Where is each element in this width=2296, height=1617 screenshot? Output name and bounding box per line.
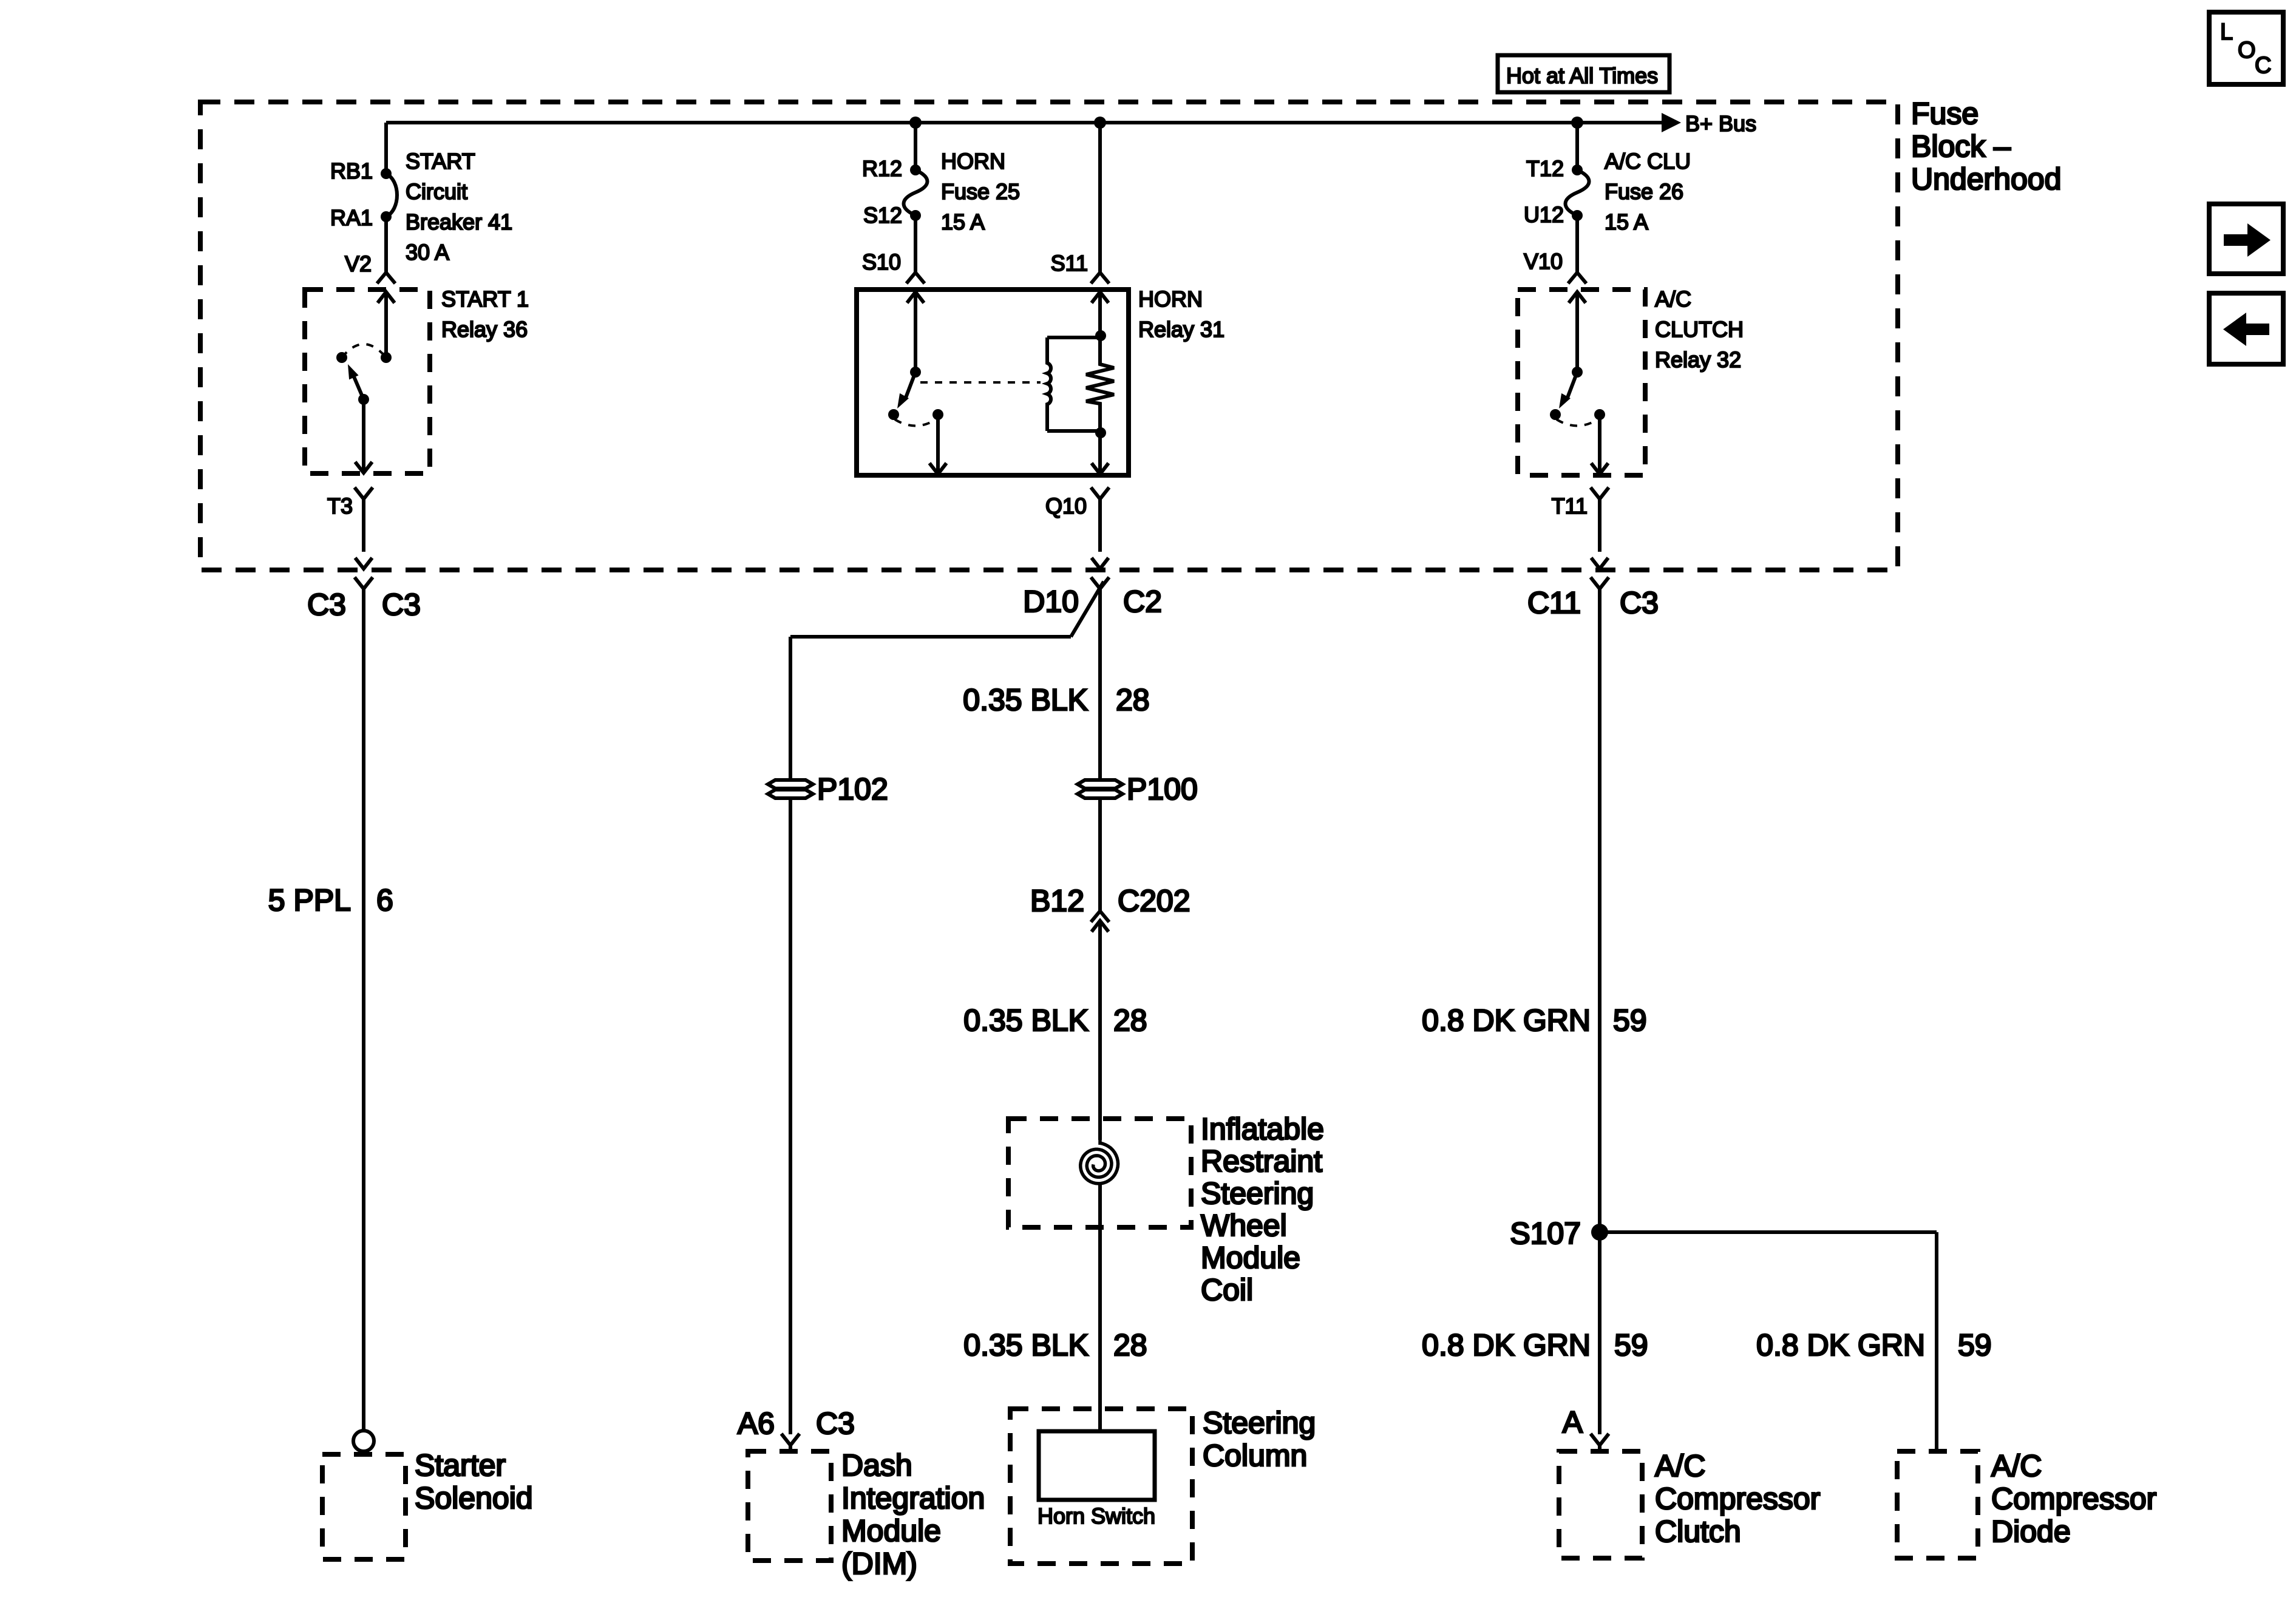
fuse block underhood dashed boundary box [200,102,1898,570]
svg-text:A/C CLU: A/C CLU [1605,149,1691,174]
right-arrow page icon box [2209,204,2283,274]
label T3 [327,493,353,518]
svg-text:Column: Column [1203,1439,1307,1473]
horn switch solid rect [1039,1431,1155,1500]
svg-text:6: 6 [376,883,393,917]
svg-text:30 A: 30 A [406,240,449,265]
svg-text:HORN: HORN [941,149,1005,174]
connector C11-C3 fork [1591,577,1609,589]
svg-text:S107: S107 [1510,1216,1581,1250]
wire C11 to S107 [1598,589,1601,1232]
label S10 [862,249,901,274]
svg-text:5 PPL: 5 PPL [268,883,351,917]
relay32 fixed contact dot left [1550,409,1561,420]
svg-text:Underhood: Underhood [1911,162,2061,196]
relay31 coil branch [1047,337,1100,431]
label V10 [1524,249,1563,274]
connector P102 inline symbol [768,780,813,798]
wire T3 to border w/ arrow [355,558,372,569]
svg-text:CLUTCH: CLUTCH [1655,317,1744,342]
svg-text:Starter: Starter [415,1448,506,1482]
svg-text:Steering: Steering [1203,1406,1316,1440]
horn relay 31 solid box [857,290,1129,475]
svg-text:Block –: Block – [1911,129,2011,163]
connector S10 fork [906,273,925,283]
terminal R12 dot [910,164,921,175]
svg-text:Compressor: Compressor [1655,1482,1820,1516]
svg-text:C202: C202 [1118,884,1190,918]
relay31 fixed contact dot left [888,409,899,420]
svg-text:P102: P102 [817,772,888,806]
steering column dashed box [1010,1409,1192,1564]
label 28 row3 [1113,1328,1147,1362]
label C2 [1123,585,1162,619]
ac clutch relay 32 dashed box [1518,290,1645,475]
connector C202 fork+arrow [1091,911,1109,1140]
relay32 switch pivot dot [1572,367,1583,378]
relay32 output wire w/ arrow [1591,415,1608,474]
connector S11 fork [1091,273,1109,283]
relay 36 input arrow [378,292,395,358]
svg-text:T3: T3 [327,493,353,518]
label 0.8 DK GRN row2 right [1756,1328,1925,1362]
connector A6 fork [781,1434,800,1451]
svg-text:Module: Module [841,1514,941,1548]
relay31 switch arm w/ arrowhead [897,372,915,408]
label C202 [1118,884,1190,918]
svg-text:S11: S11 [1051,251,1088,276]
svg-text:O: O [2238,38,2256,63]
relay31 coil bottom node dot [1095,427,1106,438]
svg-text:Module: Module [1201,1241,1300,1275]
svg-text:S10: S10 [862,249,901,274]
svg-text:28: 28 [1116,683,1150,717]
wire P100 to B12 [1098,798,1102,911]
svg-text:Circuit: Circuit [406,179,467,204]
svg-text:T11: T11 [1552,493,1588,518]
label S107 [1510,1216,1581,1250]
svg-text:C3: C3 [1620,586,1659,620]
svg-text:A/C: A/C [1991,1449,2042,1483]
wire S12 to S10 [914,215,917,273]
svg-text:0.35 BLK: 0.35 BLK [963,1003,1089,1037]
starter solenoid dashed box [322,1454,406,1559]
wire bus to R12 [914,123,917,170]
relay36 output wire w/ down arrow [355,399,372,473]
label U12 [1524,202,1564,227]
connector D10-C2 fork [1091,577,1109,589]
relay36 common contact dot [358,394,369,405]
connector Q10 fork [1091,487,1109,552]
label 28 row2 [1113,1003,1147,1037]
svg-text:RA1: RA1 [330,205,373,230]
wire bus to RB1 [384,123,388,174]
wire C2 to P100 [1098,589,1102,780]
svg-text:Relay 31: Relay 31 [1138,317,1224,342]
svg-text:Coil: Coil [1201,1273,1253,1307]
label 59 row1 [1613,1003,1647,1037]
svg-text:A/C: A/C [1655,1449,1705,1483]
svg-text:S12: S12 [863,203,902,228]
label A/C CLU Fuse 26 15 A [1605,149,1691,234]
svg-text:59: 59 [1613,1003,1647,1037]
label D10 [1023,585,1079,619]
label A6 [738,1406,775,1440]
svg-text:RB1: RB1 [330,158,373,183]
terminal T12 dot [1572,164,1583,175]
label START 1 Relay 36 [441,286,529,342]
svg-text:C3: C3 [382,588,421,622]
B+ bus arrowhead and label [1662,111,1756,136]
svg-text:Fuse 26: Fuse 26 [1605,179,1683,204]
label C3 at DIM [816,1406,855,1440]
svg-text:0.8 DK GRN: 0.8 DK GRN [1422,1003,1591,1037]
label 0.35 BLK row3 [963,1328,1089,1362]
svg-text:C11: C11 [1527,586,1581,620]
wire P102 to A6 [789,798,792,1434]
label P100 [1127,772,1198,806]
svg-text:28: 28 [1113,1328,1147,1362]
label A/C Compressor Clutch [1655,1449,1820,1548]
svg-text:C2: C2 [1123,585,1162,619]
wire C3 to starter solenoid [362,589,365,1431]
relay31 switch pivot dot [910,367,921,378]
label B12 [1030,884,1084,918]
svg-text:Horn Switch: Horn Switch [1038,1503,1155,1528]
relay31 S10 input arrow wire [907,292,924,372]
connector T3 fork [355,487,373,552]
terminal S12 dot [910,210,921,221]
label Steering Column [1203,1406,1316,1473]
svg-text:L: L [2220,19,2233,45]
svg-text:28: 28 [1113,1003,1147,1037]
svg-text:15 A: 15 A [941,209,985,234]
label RB1 [330,158,373,183]
label Dash Integration Module (DIM) [841,1448,985,1581]
svg-text:Relay 36: Relay 36 [441,317,528,342]
wire S11 from bus [1098,123,1102,273]
label A pin [1563,1405,1583,1439]
svg-text:R12: R12 [862,156,902,181]
label R12 [862,156,902,181]
label A/C CLUTCH Relay 32 [1655,286,1744,372]
relay36 contact dashed arc [342,344,386,358]
svg-text:START 1: START 1 [441,286,529,311]
svg-text:Fuse: Fuse [1911,97,1978,131]
label 5 PPL [268,883,351,917]
svg-text:Compressor: Compressor [1991,1482,2156,1516]
relay32 fixed contact dot right [1594,409,1605,420]
svg-text:Hot at All Times: Hot at All Times [1506,63,1658,88]
svg-text:A: A [1563,1405,1583,1439]
label P102 [817,772,888,806]
connector V2 fork [377,273,395,283]
wire D10 branch diagonal [1071,581,1104,637]
svg-text:Clutch: Clutch [1655,1514,1741,1548]
svg-text:15 A: 15 A [1605,209,1648,234]
svg-text:59: 59 [1614,1328,1648,1362]
svg-text:Restraint: Restraint [1201,1144,1322,1178]
svg-text:START: START [406,149,475,174]
relay36 switch arm with arrowhead [348,364,364,399]
relay31 coil top node dot [1095,330,1106,341]
label 28 row1 [1116,683,1150,717]
wire bus to T12 [1575,123,1579,170]
svg-text:0.8 DK GRN: 0.8 DK GRN [1422,1328,1591,1362]
svg-text:59: 59 [1958,1328,1992,1362]
relay32 input arrow wire [1569,292,1586,372]
splice S107 dot [1591,1224,1608,1241]
svg-text:Q10: Q10 [1045,493,1087,518]
label 59 row2 left [1614,1328,1648,1362]
ac compressor diode dashed box [1897,1451,1978,1558]
junction dot bus-S11 [1094,117,1106,129]
svg-text:0.35 BLK: 0.35 BLK [963,683,1088,717]
label Fuse Block - Underhood [1911,97,2061,196]
svg-text:Inflatable: Inflatable [1201,1112,1324,1146]
starter solenoid terminal circle [353,1431,374,1451]
svg-text:U12: U12 [1524,202,1564,227]
steering wheel module coil spiral [1081,1137,1118,1184]
label T12 [1526,156,1564,181]
label Starter Solenoid [415,1448,533,1515]
label A/C Compressor Diode [1991,1449,2156,1548]
wire T11 to border w/ arrow [1591,558,1608,569]
Hot at All Times callout box [1498,55,1669,92]
label 0.8 DK GRN row1 [1422,1003,1591,1037]
ac fuse 26 element s-curve [1566,170,1589,215]
relay31 control dashed line [920,381,1041,384]
circuit breaker 41 element arc [386,174,397,217]
relay31 switch output wire w/ arrow [929,415,946,474]
label HORN Fuse 25 15 A [941,149,1020,234]
relay START 1 Relay 36 dashed box [305,290,430,473]
connector P100 inline symbol [1078,780,1123,798]
svg-text:T12: T12 [1526,156,1564,181]
label START Circuit Breaker 41 30 A [406,149,512,265]
svg-text:C3: C3 [307,588,346,622]
label 0.8 DK GRN row2 left [1422,1328,1591,1362]
label Horn Switch [1038,1503,1155,1528]
connector A fork [1591,1434,1609,1451]
wire S107 horizontal to diode branch [1600,1230,1937,1234]
label C11 [1527,586,1581,620]
svg-text:V10: V10 [1524,249,1563,274]
wire Q10 to border w/ arrow [1092,558,1109,569]
relay36 fixed contact dot left [336,352,347,363]
connector C3 fork left branch [355,577,373,589]
svg-text:C3: C3 [816,1406,855,1440]
terminal U12 dot [1572,210,1583,221]
relay31 S11 input arrow wire [1092,292,1109,336]
label Q10 [1045,493,1087,518]
svg-text:V2: V2 [345,251,372,276]
svg-text:B+ Bus: B+ Bus [1685,111,1756,136]
junction dot bus-AC fuse [1571,117,1583,129]
label 59 row2 right [1958,1328,1992,1362]
left-arrow page icon box [2209,293,2283,364]
wire diode branch vertical [1935,1232,1938,1451]
svg-text:0.8 DK GRN: 0.8 DK GRN [1756,1328,1925,1362]
svg-text:Relay 32: Relay 32 [1655,347,1741,372]
terminal RA1 dot [381,211,392,222]
svg-text:Fuse 25: Fuse 25 [941,179,1020,204]
label C3 left [307,588,346,622]
label Inflatable Restraint Steering Wheel Module Coil [1201,1112,1324,1307]
terminal RB1 dot [381,168,392,179]
wire D10 branch horizontal [790,635,1071,639]
wire horizontal corner down to P102 [789,637,792,780]
svg-text:Solenoid: Solenoid [415,1481,533,1515]
wire S107 to compressor clutch [1598,1232,1601,1434]
label HORN Relay 31 [1138,286,1224,342]
horn fuse 25 element s-curve [904,170,928,215]
svg-text:Wheel: Wheel [1201,1209,1287,1242]
ac compressor clutch dashed box [1559,1451,1642,1558]
svg-text:C: C [2255,53,2271,78]
connector V10 fork [1568,273,1586,283]
label T11 [1552,493,1588,518]
svg-text:HORN: HORN [1138,286,1203,311]
svg-text:Diode: Diode [1991,1514,2071,1548]
svg-text:D10: D10 [1023,585,1079,619]
svg-text:B12: B12 [1030,884,1084,918]
relay31 output wire to Q10 [1092,433,1109,474]
wire RA1 to V2 [384,217,388,273]
relay31 resistor zigzag [1086,337,1114,431]
label C3 at C11 [1620,586,1659,620]
junction dot bus-horn fuse [909,117,922,129]
svg-text:(DIM): (DIM) [841,1547,917,1581]
svg-text:Dash: Dash [841,1448,912,1482]
label 0.35 BLK row1 [963,683,1088,717]
relay31 fixed contact dot right [932,409,943,420]
relay32 contact dashed arc [1557,419,1598,426]
label S12 [863,203,902,228]
svg-text:0.35 BLK: 0.35 BLK [963,1328,1089,1362]
wire B+ bus horizontal [386,121,1662,124]
svg-text:P100: P100 [1127,772,1198,806]
relay31 contact dashed arc [895,419,936,426]
relay32 switch arm w/ arrowhead [1559,372,1577,408]
relay36 fixed contact dot right [381,352,392,363]
label RA1 [330,205,373,230]
svg-text:Integration: Integration [841,1481,985,1515]
svg-text:A/C: A/C [1655,286,1691,311]
wire coil to horn switch [1098,1182,1102,1432]
label V2 [345,251,372,276]
wire U12 to V10 [1575,215,1579,273]
inflatable restraint coil dashed box [1008,1119,1191,1227]
label S11 [1051,251,1088,276]
LOC page-reference icon box [2209,12,2283,84]
Dash Integration Module dashed box [748,1451,831,1561]
label 0.35 BLK row2 [963,1003,1089,1037]
svg-text:Steering: Steering [1201,1176,1314,1210]
svg-text:A6: A6 [738,1406,775,1440]
label 6 [376,883,393,917]
connector T11 fork [1591,487,1609,552]
label C3 right [382,588,421,622]
svg-text:Breaker 41: Breaker 41 [406,209,512,234]
